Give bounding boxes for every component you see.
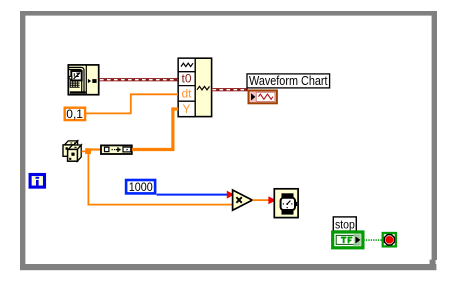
wire blue: 1000 to multiply <box>157 194 231 196</box>
boolean terminal TF (stop button) <box>333 232 363 248</box>
wire orange: junction to Build Array <box>91 148 101 150</box>
label Waveform Chart <box>247 74 330 88</box>
wire orange: multiply to Wait <box>252 199 270 201</box>
constant 1000 <box>126 180 155 194</box>
svg-text:dt: dt <box>181 86 192 100</box>
while loop border <box>20 11 437 270</box>
wire orange: dice to junction <box>82 150 88 152</box>
svg-text:t0: t0 <box>181 71 191 85</box>
multiply node U5 <box>233 190 253 210</box>
svg-text:1000: 1000 <box>129 180 153 194</box>
red exec arrow at multiply input <box>227 191 234 199</box>
chart terminal (Waveform Chart indicator) <box>249 91 277 104</box>
Build Array node U4 <box>101 145 132 154</box>
wire orange: 0,1 to dt input <box>86 94 178 113</box>
svg-text:0,1: 0,1 <box>66 107 83 121</box>
wire waveform dashed: DateTime to Build Waveform t0 <box>99 78 179 81</box>
label stop <box>333 217 356 231</box>
iteration terminal i <box>30 175 44 188</box>
wire orange thick: Build Array to Y input <box>132 109 178 150</box>
svg-text:stop: stop <box>335 217 355 231</box>
wire orange: junction down to multiply input <box>88 153 232 205</box>
wire green dotted: TF to conditional terminal <box>364 239 382 241</box>
svg-text:Y: Y <box>182 102 190 116</box>
red exec arrow at Wait input <box>268 196 276 204</box>
wire junction node A <box>85 148 91 154</box>
constant 0,1 <box>65 107 85 121</box>
svg-text:Waveform Chart: Waveform Chart <box>249 74 328 88</box>
wire waveform dashed: Build Waveform to chart terminal <box>212 88 248 91</box>
Build Waveform node U2 <box>178 58 211 116</box>
conditional terminal (stop sign) <box>383 233 396 246</box>
Wait (ms) node U6 <box>274 189 298 218</box>
random number dice U3 <box>63 141 81 161</box>
Get Date/Time In Seconds U1 <box>68 65 98 95</box>
